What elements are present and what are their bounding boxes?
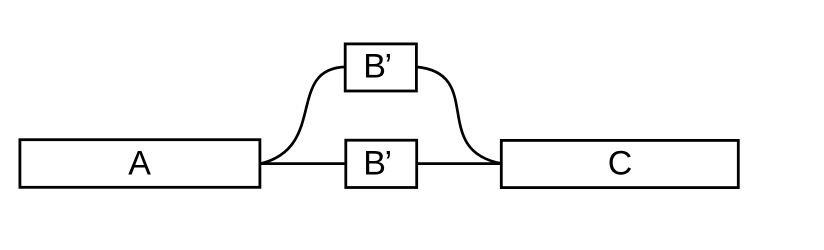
svg-text:B’: B’: [363, 48, 392, 86]
node B' upper box: [345, 44, 416, 91]
wire upper B' to C (curved): [417, 67, 502, 164]
svg-text:B’: B’: [363, 145, 392, 183]
node B' middle box: [346, 140, 417, 187]
svg-text:C: C: [608, 145, 633, 183]
node C box: [501, 140, 738, 187]
svg-text:A: A: [128, 145, 151, 183]
node A box: [20, 140, 260, 188]
wire B' to C (straight): [417, 162, 502, 165]
wire A to upper B' (curved): [261, 67, 346, 164]
wire A to B' (straight): [260, 162, 346, 165]
